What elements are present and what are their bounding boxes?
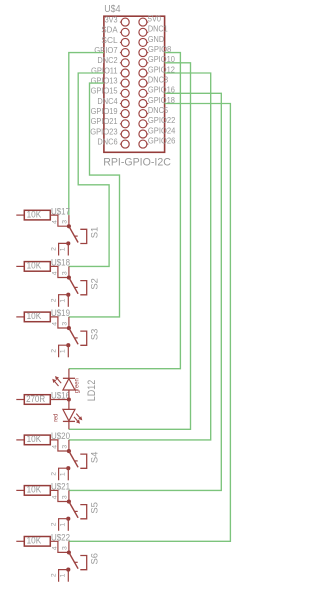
switch S5 top contact junction (67, 500, 71, 504)
LED LD12 red diode symbol (63, 409, 75, 421)
switch S3 pin 2 lead (59, 345, 69, 357)
switch S5 pin 2 lead (59, 519, 69, 531)
svg-text:10K: 10K (27, 484, 42, 495)
svg-text:S6: S6 (90, 553, 100, 565)
resistor U$20 value 10K (16, 433, 50, 445)
svg-text:GPIO22: GPIO22 (148, 115, 176, 125)
svg-text:SDA: SDA (101, 25, 117, 35)
switch S1 pin 3 lead (68, 215, 70, 226)
switch S3 pin numbers 4 3 2 1 (51, 322, 69, 354)
switch S4 pin 4 lead and wire from resistor (50, 440, 69, 451)
switch S1 pin 4 lead and wire from resistor (50, 215, 69, 226)
svg-text:2: 2 (51, 522, 58, 526)
resistor U$18 value 10K (16, 260, 50, 272)
pin DNC3 (right row 7) (139, 75, 168, 88)
switch S5 pin numbers 4 3 2 1 (51, 495, 69, 527)
switch S5 pin 1 lead (67, 519, 69, 531)
switch S3 actuator arm (69, 328, 78, 344)
switch S4 top contact junction (67, 449, 71, 453)
wire GPIO16 to S5 (69, 93, 222, 490)
pin GPIO11 (left row 6) (91, 65, 129, 77)
switch S1 pin 1 lead (67, 243, 69, 255)
resistor U$19 name label (51, 307, 70, 318)
resistor U$22 value 10K (16, 535, 50, 547)
wire GPIO11 to S2 (69, 73, 109, 266)
pin DNC4 (left row 9) (97, 96, 129, 108)
svg-text:4: 4 (51, 220, 58, 224)
svg-text:2: 2 (51, 573, 58, 577)
svg-text:3: 3 (61, 495, 68, 499)
pin GPIO22 (right row 11) (139, 115, 176, 128)
switch S6 bottom contact junction (66, 568, 70, 572)
svg-text:270R: 270R (26, 393, 45, 404)
svg-text:3: 3 (61, 445, 68, 449)
switch S4 button dashed link (75, 460, 78, 462)
svg-text:GPIO13: GPIO13 (91, 76, 118, 86)
pin GND (right row 3) (139, 34, 164, 47)
switch S6 pin 4 lead and wire from resistor (50, 541, 69, 552)
switch S2 pin 2 lead (59, 295, 69, 307)
switch S4 pin 2 lead (59, 468, 69, 480)
LED LD12 name label (86, 380, 98, 402)
pin 5V0 (right row 1) (139, 14, 161, 27)
switch S2 button bracket (80, 281, 86, 295)
pin SDA (left row 2) (101, 25, 129, 37)
svg-text:2: 2 (51, 247, 58, 251)
pin GPIO15 (left row 8) (91, 86, 130, 98)
LED LD12 middle junction (67, 398, 71, 402)
pin GPIO23 (left row 12) (90, 126, 129, 138)
resistor U$20 name label (51, 430, 70, 441)
switch S6 actuator arm (69, 553, 78, 569)
switch S2 actuator arm (69, 278, 78, 294)
svg-text:1: 1 (60, 247, 67, 251)
svg-text:3: 3 (61, 546, 68, 550)
svg-text:S5: S5 (90, 502, 100, 514)
resistor U$17 value 10K (16, 208, 50, 220)
LED LD12 green section anode-cathode leads (68, 369, 70, 400)
switch S5 button bracket (80, 505, 86, 519)
switch S4 pin 1 lead (67, 468, 69, 480)
svg-text:1: 1 (60, 299, 67, 303)
switch S6 pin 2 lead (59, 570, 69, 582)
switch S1 name label (90, 227, 100, 239)
switch S1 button dashed link (75, 235, 78, 237)
pin DNC6 (left row 13) (97, 137, 129, 149)
svg-text:DNC1: DNC1 (148, 24, 168, 34)
svg-text:GPIO24: GPIO24 (148, 125, 176, 135)
switch S2 pin 4 lead and wire from resistor (50, 266, 69, 277)
pin GPIO24 (right row 12) (139, 125, 176, 138)
pin GPIO16 (right row 8) (139, 85, 175, 98)
connector U$4 value label RPI-GPIO-I2C (103, 157, 171, 169)
svg-text:4: 4 (51, 445, 58, 449)
connector U$4 body (104, 16, 165, 152)
svg-text:3V3: 3V3 (105, 15, 118, 25)
svg-text:GPIO15: GPIO15 (91, 86, 118, 96)
LED LD12 label green (74, 378, 81, 393)
svg-text:10K: 10K (27, 535, 42, 546)
resistor U$16 name label (51, 390, 70, 401)
pin GPIO18 (right row 9) (139, 95, 175, 108)
svg-text:DNC5: DNC5 (148, 105, 168, 115)
switch S3 pin 4 lead and wire from resistor (50, 317, 69, 328)
switch S4 name label (90, 452, 100, 464)
switch S2 bottom contact junction (66, 293, 70, 297)
resistor U$19 value 10K (16, 310, 50, 322)
switch S5 actuator arm (69, 502, 78, 518)
svg-text:S1: S1 (90, 227, 100, 239)
svg-text:10K: 10K (27, 433, 42, 444)
switch S3 button bracket (80, 331, 86, 345)
switch S4 bottom contact junction (66, 466, 70, 470)
svg-text:red: red (52, 414, 59, 422)
pin GPIO19 (left row 10) (91, 106, 130, 118)
switch S5 pin 3 lead (68, 490, 70, 501)
switch S3 button dashed link (75, 337, 78, 339)
wire GPIO18 to S6 (69, 104, 231, 542)
connector U$4 name label (104, 4, 121, 15)
svg-text:1: 1 (60, 523, 67, 527)
switch S3 bottom contact junction (66, 343, 70, 347)
resistor U$21 name label (51, 481, 70, 492)
svg-text:5V0: 5V0 (148, 14, 161, 24)
svg-text:4: 4 (51, 322, 58, 326)
svg-text:GPIO19: GPIO19 (91, 106, 118, 116)
pin GPIO7 (left row 4) (94, 45, 129, 57)
switch S4 pin 3 lead (68, 440, 70, 451)
switch S6 button dashed link (75, 561, 78, 563)
svg-text:10K: 10K (27, 208, 42, 219)
svg-text:GND: GND (148, 34, 164, 44)
svg-text:4: 4 (51, 271, 58, 275)
pin GPIO10 (right row 5) (139, 54, 175, 67)
svg-text:1: 1 (60, 472, 67, 476)
svg-text:10K: 10K (27, 310, 42, 321)
svg-text:DNC3: DNC3 (148, 75, 168, 85)
svg-text:4: 4 (51, 495, 58, 499)
switch S2 name label (90, 278, 100, 290)
svg-text:4: 4 (51, 546, 58, 550)
resistor U$17 name label (51, 205, 70, 216)
svg-text:2: 2 (51, 298, 58, 302)
switch S5 pin 4 lead and wire from resistor (50, 490, 69, 501)
LED LD12 red emission arrows (74, 414, 82, 424)
switch S5 name label (90, 502, 100, 514)
switch S1 pin numbers 4 3 2 1 (51, 220, 69, 252)
resistor U$18 name label (51, 257, 70, 268)
svg-text:10K: 10K (27, 260, 42, 271)
switch S1 pin 2 lead (59, 243, 69, 255)
switch S3 name label (90, 329, 100, 341)
svg-text:2: 2 (51, 349, 58, 353)
pin GPIO12 (right row 6) (139, 64, 175, 77)
switch S1 bottom contact junction (66, 241, 70, 245)
wire GPIO7 to S1 (69, 53, 104, 216)
svg-text:3: 3 (61, 220, 68, 224)
svg-text:1: 1 (60, 573, 67, 577)
pin GPIO8 (right row 4) (139, 44, 172, 57)
pin DNC2 (left row 5) (97, 55, 129, 67)
resistor U$21 value 10K (16, 484, 50, 496)
svg-text:S2: S2 (90, 278, 100, 290)
switch S6 pin 3 lead (68, 541, 70, 552)
switch S4 pin numbers 4 3 2 1 (51, 445, 69, 477)
switch S3 pin 1 lead (67, 345, 69, 357)
pin SCL (left row 3) (101, 35, 129, 47)
LED LD12 green emission arrows (52, 376, 61, 386)
LED LD12 red section leads (68, 400, 70, 430)
wire 270R to LED junction (50, 399, 69, 401)
svg-text:U$4: U$4 (104, 4, 121, 15)
wire GPIO10 to LED red cathode (69, 63, 191, 430)
switch S1 actuator arm (69, 226, 78, 242)
svg-text:S3: S3 (90, 329, 100, 341)
svg-text:SCL: SCL (101, 35, 117, 45)
switch S6 pin numbers 4 3 2 1 (51, 546, 69, 578)
wire GPIO13 to S3 (69, 83, 120, 317)
wire GPIO8 to LED green cathode (69, 53, 181, 369)
switch S2 pin 3 lead (68, 266, 70, 277)
svg-text:S4: S4 (90, 452, 100, 464)
svg-text:2: 2 (51, 472, 58, 476)
svg-text:1: 1 (60, 349, 67, 353)
pin GPIO26 (right row 13) (139, 136, 176, 149)
svg-text:GPIO21: GPIO21 (91, 116, 118, 126)
pin DNC5 (right row 10) (139, 105, 168, 118)
switch S3 pin 3 lead (68, 317, 70, 328)
svg-text:3: 3 (61, 322, 68, 326)
switch S5 button dashed link (75, 510, 78, 512)
switch S6 button bracket (80, 556, 86, 570)
pin GPIO21 (left row 11) (91, 116, 130, 128)
switch S1 top contact junction (67, 224, 71, 228)
svg-text:LD12: LD12 (86, 380, 98, 402)
switch S2 pin numbers 4 3 2 1 (51, 271, 69, 303)
switch S5 bottom contact junction (66, 517, 70, 521)
svg-text:GPIO11: GPIO11 (91, 65, 118, 75)
switch S3 top contact junction (67, 326, 71, 330)
svg-text:GPIO23: GPIO23 (90, 126, 118, 136)
svg-text:RPI-GPIO-I2C: RPI-GPIO-I2C (103, 157, 171, 169)
switch S4 actuator arm (69, 451, 78, 467)
switch S2 top contact junction (67, 276, 71, 280)
switch S1 button bracket (80, 229, 86, 243)
svg-text:DNC2: DNC2 (97, 55, 117, 65)
pin 3V3 (left row 1) (105, 15, 130, 27)
switch S4 button bracket (80, 454, 86, 468)
svg-text:DNC4: DNC4 (97, 96, 117, 106)
LED LD12 label red (52, 414, 59, 422)
switch S2 pin 1 lead (67, 295, 69, 307)
switch S6 pin 1 lead (67, 570, 69, 582)
resistor U$16 value 270R (16, 393, 50, 405)
switch S6 name label (90, 553, 100, 565)
svg-text:GPIO26: GPIO26 (148, 136, 176, 146)
LED LD12 green diode symbol (63, 378, 75, 390)
svg-text:green: green (74, 378, 81, 393)
pin DNC1 (right row 2) (139, 24, 168, 37)
wire GPIO12 to S4 (69, 73, 211, 440)
switch S6 top contact junction (67, 550, 71, 554)
svg-text:GPIO7: GPIO7 (94, 45, 118, 55)
svg-text:3: 3 (61, 271, 68, 275)
resistor U$22 name label (51, 532, 70, 543)
switch S2 button dashed link (75, 286, 78, 288)
pin GPIO13 (left row 7) (91, 76, 130, 88)
svg-text:DNC6: DNC6 (97, 137, 117, 147)
